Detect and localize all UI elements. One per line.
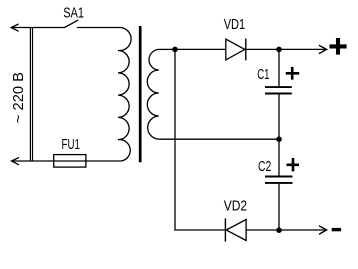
wire: switch to primary bbox=[77, 27, 121, 29]
mains cord double line bbox=[30, 28, 32, 162]
arrow: minus output bbox=[319, 226, 327, 234]
transformer core bbox=[139, 26, 142, 162]
transformer T1 secondary winding bbox=[147, 49, 160, 139]
label - output bbox=[332, 228, 341, 231]
C2 polarity plus bbox=[287, 158, 300, 171]
fuse FU1 bbox=[54, 155, 86, 168]
junction dot: minus rail / C2 bbox=[276, 227, 282, 233]
svg-text:SA1: SA1 bbox=[63, 6, 84, 22]
svg-text:FU1: FU1 bbox=[62, 137, 80, 153]
arrow: mains top bbox=[11, 24, 18, 31]
capacitor C1 bbox=[265, 49, 292, 139]
wire: mains bottom lead bbox=[12, 160, 122, 162]
capacitor C2 bbox=[265, 139, 293, 230]
arrow: plus output bbox=[319, 45, 327, 53]
wire: node A down to minus rail bbox=[175, 49, 225, 230]
junction dot: midpoint bbox=[276, 136, 282, 142]
svg-text:C2: C2 bbox=[258, 159, 271, 175]
wire: secondary bottom to C1/C2 midpoint bbox=[160, 138, 279, 140]
arrow: mains bottom bbox=[12, 158, 19, 165]
wire: secondary top to node A bbox=[160, 48, 175, 50]
diode VD1 bbox=[226, 38, 246, 60]
wire: node A to VD1 anode bbox=[175, 48, 226, 50]
label + output bbox=[330, 38, 347, 55]
svg-text:VD1: VD1 bbox=[224, 17, 246, 33]
diode VD2 bbox=[225, 218, 246, 241]
svg-text:~ 220 В: ~ 220 В bbox=[11, 72, 27, 123]
wire: mains top lead bbox=[11, 27, 64, 29]
wire: VD2 anode to minus output bbox=[246, 229, 326, 231]
node A junction dot bbox=[172, 47, 178, 53]
transformer T1 primary winding bbox=[118, 28, 131, 162]
svg-text:VD2: VD2 bbox=[224, 199, 247, 215]
C1 polarity plus bbox=[286, 67, 300, 80]
svg-text:C1: C1 bbox=[257, 67, 269, 83]
wire: VD1 cathode to plus output bbox=[246, 48, 326, 50]
switch SA1 blade bbox=[65, 20, 79, 27]
junction dot: plus rail / C1 bbox=[276, 47, 282, 53]
